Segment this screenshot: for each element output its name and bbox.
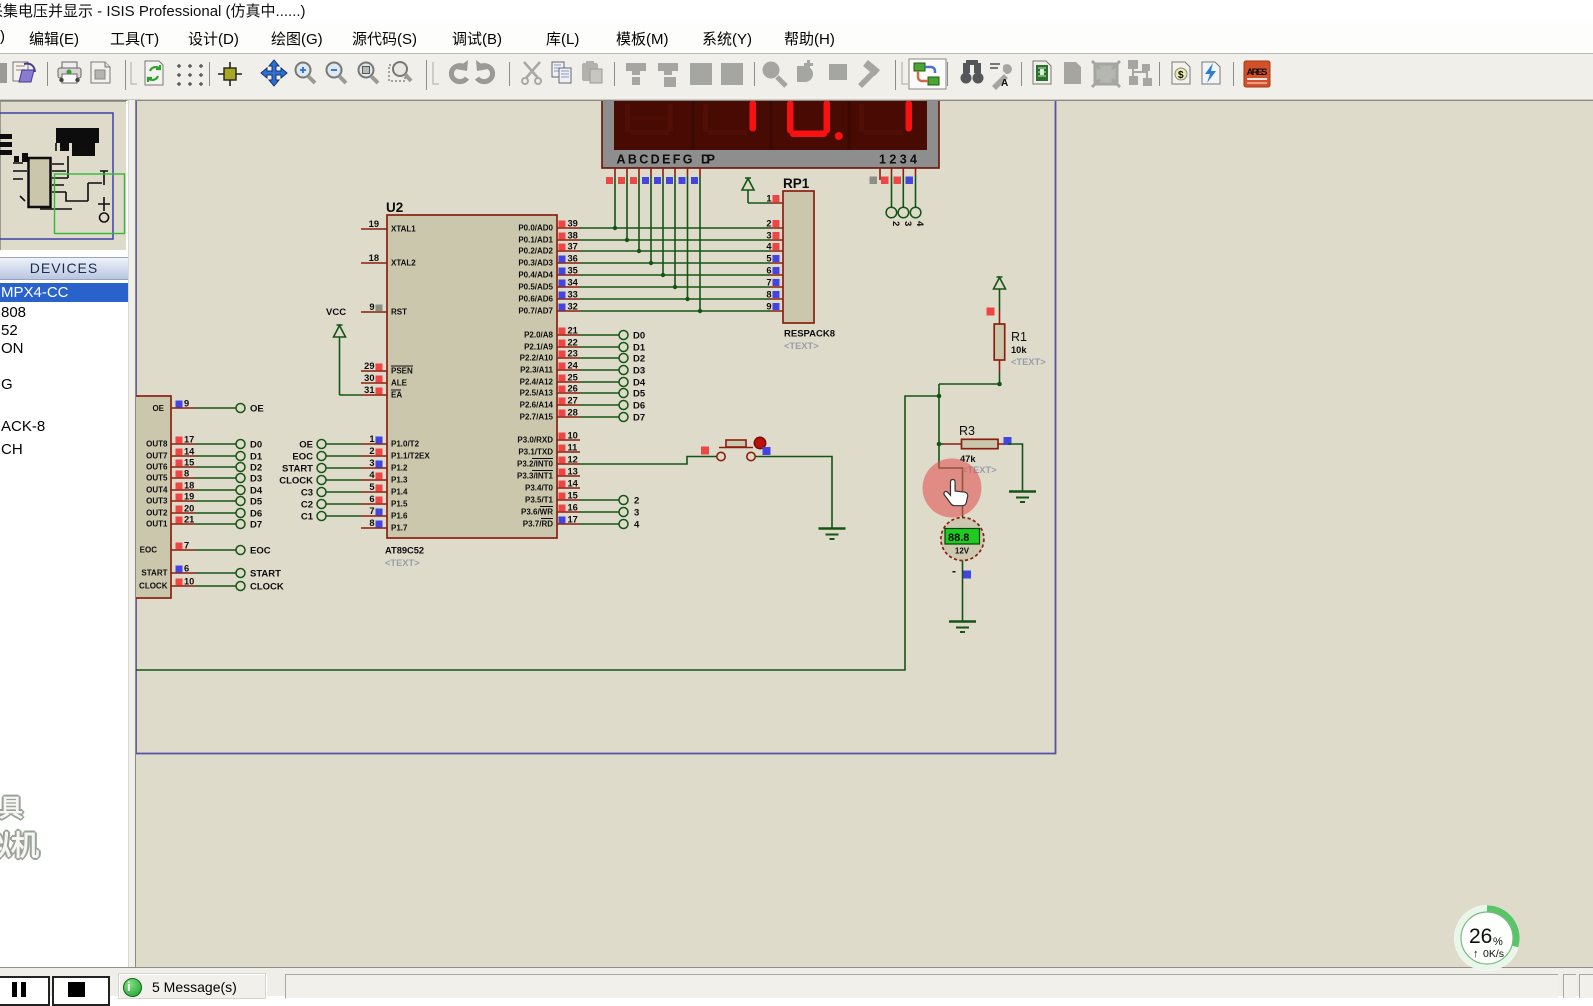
wires ADC0808 to terminals (195, 408, 236, 586)
svg-text:D0: D0 (633, 331, 645, 342)
svg-text:OE: OE (152, 404, 164, 413)
svg-text:8: 8 (369, 518, 374, 528)
svg-text:26: 26 (568, 384, 578, 394)
7-seg digit2 lit segment "1" (750, 101, 757, 132)
ADC0808 pin names (139, 404, 168, 591)
svg-text:P1.5: P1.5 (391, 500, 408, 509)
svg-text:<TEXT>: <TEXT> (385, 558, 420, 568)
wire P0.3 to RP1 pin5 (580, 262, 770, 264)
7-segment display U1 frame (602, 86, 939, 168)
svg-text:P2.5/A13: P2.5/A13 (520, 389, 554, 398)
U2 right pin stubs P0 (557, 228, 580, 311)
svg-text:4: 4 (766, 242, 772, 252)
svg-text:DP: DP (701, 153, 715, 167)
svg-text:P0.3/AD3: P0.3/AD3 (518, 259, 553, 268)
svg-text:D3: D3 (633, 366, 645, 377)
zoom out icon (327, 63, 342, 78)
resistor R1 (994, 310, 1005, 372)
resistor R3 (939, 439, 1008, 448)
svg-text:15: 15 (568, 491, 578, 501)
display digit pins 1-4 (880, 168, 916, 180)
zoom in icon (296, 63, 311, 78)
svg-text:OUT6: OUT6 (146, 463, 168, 472)
svg-text:VCC: VCC (326, 307, 346, 318)
wire P0.4 to RP1 pin6 (580, 274, 770, 276)
bottom bar (0, 967, 1593, 996)
svg-text:12V: 12V (955, 547, 970, 556)
svg-text:P1.6: P1.6 (391, 512, 408, 521)
net labels middle column (279, 440, 313, 523)
battery V1 (DC source) (941, 518, 984, 561)
property assignment (A wrench) (990, 64, 1000, 68)
svg-text:D4: D4 (250, 486, 263, 497)
svg-text:2: 2 (369, 446, 374, 456)
svg-text:32: 32 (568, 302, 578, 312)
svg-text:ALE: ALE (391, 379, 408, 388)
resistor pack RP1 (770, 176, 814, 323)
wire P0.0 to RP1 pin2 (580, 227, 770, 229)
junction dots segment taps (613, 226, 702, 313)
svg-text:D4: D4 (633, 378, 646, 389)
svg-text:2: 2 (634, 496, 639, 507)
svg-text:3: 3 (766, 231, 771, 241)
paste grayed (582, 63, 598, 81)
svg-text:ARES: ARES (1247, 67, 1268, 78)
svg-text:OUT2: OUT2 (146, 509, 168, 518)
mark/doc icon (91, 62, 110, 83)
svg-text:P0.4/AD4: P0.4/AD4 (518, 271, 553, 280)
zoom extent icon (389, 65, 405, 81)
grid icon (177, 64, 203, 68)
svg-text:R3: R3 (959, 424, 975, 438)
svg-text:%: % (1493, 936, 1503, 948)
svg-text:D3: D3 (250, 474, 262, 485)
svg-text:6: 6 (369, 494, 374, 504)
menu bar (0, 20, 1593, 54)
U2 P2 pin names (520, 331, 554, 422)
toolbar (0, 54, 1593, 100)
wire junction down to R3/battery (939, 384, 963, 517)
svg-text:18: 18 (369, 253, 379, 263)
display pin state squares (A,B,C red; D-DP blue) (606, 177, 698, 184)
svg-text:9: 9 (184, 399, 189, 409)
svg-text:6: 6 (766, 266, 771, 276)
svg-text:3: 3 (369, 458, 374, 468)
svg-text:D1: D1 (633, 343, 646, 354)
svg-text:23: 23 (568, 349, 578, 359)
svg-text:XTAL2: XTAL2 (391, 259, 416, 268)
svg-text:OUT3: OUT3 (146, 497, 168, 506)
U2 P0 pin names (518, 224, 553, 316)
svg-text:27: 27 (568, 396, 578, 406)
RP1 pin state squares (773, 195, 780, 310)
middle terminal circles to U2 P1 (317, 440, 326, 521)
svg-text:D6: D6 (633, 401, 645, 412)
ground symbol right of R3 (1009, 492, 1036, 503)
svg-text:D5: D5 (633, 389, 646, 400)
power terminal VCC at RP1 pin1 (742, 178, 754, 203)
svg-text:5: 5 (369, 482, 374, 492)
svg-text:24: 24 (568, 361, 579, 371)
svg-text:P2.3/A11: P2.3/A11 (520, 366, 553, 375)
ADC0808 pin stubs (171, 408, 195, 586)
svg-text:13: 13 (568, 467, 578, 477)
svg-text:11: 11 (568, 443, 578, 453)
7-seg unlit segments digit4 (859, 104, 903, 135)
wire P3.2 to button (580, 457, 717, 465)
svg-text:33: 33 (568, 290, 578, 300)
svg-text:$: $ (1178, 70, 1184, 81)
svg-text:U2: U2 (386, 200, 403, 215)
svg-text:37: 37 (568, 242, 578, 252)
svg-text:RST: RST (391, 308, 407, 317)
svg-text:1: 1 (766, 194, 771, 204)
7-seg digit3 lit segments "U." (787, 101, 843, 141)
title bar (0, 0, 1593, 20)
svg-text:35: 35 (568, 266, 578, 276)
ground symbol under button (819, 529, 846, 540)
svg-text:P3.4/T0: P3.4/T0 (525, 484, 554, 493)
svg-text:PSEN: PSEN (391, 367, 413, 376)
svg-text:14: 14 (184, 447, 195, 457)
terminal circles display pins 2,3,4 (886, 176, 921, 218)
svg-text:P3.0/RXD: P3.0/RXD (517, 436, 553, 445)
wire P0.7 to RP1 pin9 (580, 310, 770, 312)
svg-text:P0.2/AD2: P0.2/AD2 (518, 247, 553, 256)
svg-text:RP1: RP1 (783, 176, 810, 191)
svg-text:P1.0/T2: P1.0/T2 (391, 440, 420, 449)
svg-text:D6: D6 (250, 509, 262, 520)
block copy (626, 63, 646, 75)
svg-text:D5: D5 (250, 497, 263, 508)
wire segment E vertical (662, 176, 664, 275)
svg-text:P2.0/A8: P2.0/A8 (524, 331, 553, 340)
svg-text:C3: C3 (301, 488, 313, 499)
svg-text:9: 9 (766, 302, 771, 312)
7-seg digit4 lit segment "1" (906, 101, 913, 132)
7-seg unlit segments digit2 (703, 104, 747, 135)
origin icon (218, 62, 242, 86)
pick gate ic hammer group (763, 62, 780, 79)
svg-text:25: 25 (568, 373, 578, 383)
svg-text:P0.7/AD7: P0.7/AD7 (518, 307, 553, 316)
canvas + schematic (135, 100, 1593, 968)
svg-text:9: 9 (369, 302, 374, 312)
binoculars (961, 73, 972, 84)
svg-text:P2.7/A15: P2.7/A15 (520, 413, 554, 422)
junction dot at R3 tap (937, 442, 942, 447)
svg-text:88.8: 88.8 (948, 532, 969, 544)
design explorer doc (1033, 61, 1051, 84)
electra doc (1202, 62, 1220, 84)
svg-text:↑: ↑ (1473, 948, 1479, 960)
refresh doc icon (145, 61, 163, 85)
terminal circles P2 column (619, 331, 628, 422)
U2 P3 pin numbers 10-17 (568, 431, 579, 525)
ARES icon (1244, 61, 1270, 87)
wires middle terminals to U2 P1 pins (326, 444, 361, 516)
svg-text:OE: OE (299, 440, 313, 451)
svg-text:P0.5/AD5: P0.5/AD5 (518, 283, 553, 292)
U2 left pin state squares (376, 305, 383, 528)
svg-text:6: 6 (184, 564, 189, 574)
terminal circles ADC column (236, 404, 245, 591)
svg-text:31: 31 (364, 385, 374, 395)
svg-text:D2: D2 (633, 354, 645, 365)
wire segment G vertical (687, 176, 689, 299)
junction dot at x939 y396 (937, 394, 942, 399)
svg-text:39: 39 (568, 219, 578, 229)
svg-text:-: - (952, 564, 956, 578)
svg-text:D7: D7 (250, 520, 262, 531)
wire segment B vertical (626, 176, 628, 240)
svg-text:17: 17 (568, 515, 578, 525)
svg-text:17: 17 (184, 435, 194, 445)
wire VCC to RP1 pin1 (748, 202, 770, 204)
svg-text:34: 34 (568, 278, 579, 288)
svg-text:10k: 10k (1011, 345, 1027, 355)
wire P0.6 to RP1 pin8 (580, 298, 770, 300)
wire button to ground (756, 457, 833, 529)
wire segment A vertical (614, 176, 616, 228)
power terminal VCC at U2 EA (326, 307, 346, 395)
wire segment C vertical (638, 176, 640, 251)
display digit pin state squares (gray,red,red,blue) (870, 177, 914, 185)
cut copy paste (524, 62, 540, 78)
svg-text:3: 3 (634, 508, 639, 519)
svg-text:D2: D2 (250, 463, 262, 474)
wires U2 P2 to terminals D0-D7 (580, 335, 619, 417)
svg-text:OUT5: OUT5 (146, 474, 168, 483)
svg-text:P3.3/INT1: P3.3/INT1 (517, 472, 554, 481)
svg-text:<TEXT>: <TEXT> (784, 341, 819, 351)
svg-text:2: 2 (766, 219, 771, 229)
svg-text:15: 15 (184, 458, 194, 468)
U2 P0 pin numbers 39-32 (568, 219, 579, 312)
svg-text:22: 22 (568, 338, 578, 348)
rotated net labels 2 3 4 (890, 221, 925, 227)
svg-text:D1: D1 (250, 452, 263, 463)
svg-text:P3.7/RD: P3.7/RD (523, 520, 553, 529)
svg-text:18: 18 (184, 481, 194, 491)
svg-text:P3.1/TXD: P3.1/TXD (518, 448, 553, 457)
ADC0808 pin numbers (184, 399, 195, 587)
sheet border (136, 100, 1056, 754)
svg-text:START: START (282, 464, 313, 475)
net labels 2 3 4 (634, 496, 640, 531)
autorouter pressed (909, 59, 946, 89)
junction dot at R1 bottom (997, 382, 1002, 387)
svg-text:36: 36 (568, 254, 578, 264)
svg-text:P0.6/AD6: P0.6/AD6 (518, 295, 553, 304)
svg-text:START: START (250, 569, 281, 580)
svg-text:4: 4 (369, 470, 375, 480)
wire segment F vertical (674, 176, 676, 287)
ADC0808 U3 body (clipped at canvas edge) (112, 396, 171, 598)
svg-text:OUT7: OUT7 (146, 452, 168, 461)
wire P0.2 to RP1 pin4 (580, 250, 770, 252)
svg-text:CLOCK: CLOCK (139, 582, 168, 591)
svg-text:P2.1/A9: P2.1/A9 (524, 343, 553, 352)
copy icon (552, 62, 564, 77)
svg-text:R1: R1 (1011, 330, 1027, 344)
svg-text:START: START (141, 569, 167, 578)
svg-text:P1.2: P1.2 (391, 464, 408, 473)
wire P0.5 to RP1 pin7 (580, 286, 770, 288)
svg-text:14: 14 (568, 479, 579, 489)
U2 left pin names (391, 225, 430, 533)
R1 state square (987, 308, 995, 316)
ADC0808 pin state squares (176, 401, 183, 586)
svg-text:P0.1/AD1: P0.1/AD1 (518, 236, 553, 245)
svg-text:20: 20 (184, 504, 194, 514)
new/open sheets icon (13, 62, 28, 81)
svg-text:CLOCK: CLOCK (279, 476, 313, 487)
svg-text:P1.7: P1.7 (391, 524, 408, 533)
svg-text:C2: C2 (301, 500, 313, 511)
battery state square (963, 571, 971, 579)
svg-text:28: 28 (568, 408, 578, 418)
wire VCC to EA pin (340, 394, 362, 396)
power terminal VCC at R1 (994, 277, 1006, 310)
terminal circles P3 column (619, 496, 628, 529)
wire battery to ground (962, 561, 964, 622)
svg-text:P2.6/A14: P2.6/A14 (520, 401, 554, 410)
zoom area icon (359, 63, 374, 78)
svg-text:8: 8 (184, 469, 189, 479)
svg-text:3: 3 (902, 221, 913, 226)
svg-text:10: 10 (184, 577, 194, 587)
svg-text:D0: D0 (250, 440, 262, 451)
RP1 pin numbers 1-9 (766, 194, 772, 312)
wire R1 bottom to junction (939, 372, 1000, 384)
svg-text:AT89C52: AT89C52 (385, 546, 424, 556)
svg-text:7: 7 (184, 541, 189, 551)
svg-text:10: 10 (568, 431, 578, 441)
undo redo (451, 66, 467, 82)
left panel (0, 100, 128, 967)
svg-text:RESPACK8: RESPACK8 (784, 329, 835, 340)
svg-text:2: 2 (890, 221, 901, 226)
svg-text:4: 4 (634, 520, 640, 531)
svg-text:OUT4: OUT4 (146, 486, 168, 495)
display segment pins A-G,DP (615, 168, 700, 176)
svg-text:EOC: EOC (140, 546, 158, 555)
svg-text:P1.3: P1.3 (391, 476, 408, 485)
U2 left pin stubs (361, 229, 387, 528)
svg-text:0K/s: 0K/s (1483, 948, 1504, 960)
new sheet / remove sheet / goto docs (1064, 62, 1081, 84)
wire R3 right to ground (1008, 444, 1023, 491)
svg-text:21: 21 (184, 515, 194, 525)
svg-text:A: A (1001, 78, 1008, 89)
svg-text:EOC: EOC (250, 546, 271, 557)
hand cursor (944, 479, 968, 505)
U2 P3 pin names (517, 436, 554, 529)
bom $ doc (1172, 62, 1190, 84)
svg-text:4: 4 (914, 221, 925, 227)
svg-text:26: 26 (1469, 925, 1492, 948)
U2 left pin numbers (364, 219, 379, 528)
microcontroller U2 AT89C52 body (385, 200, 557, 568)
svg-text:12: 12 (568, 455, 578, 465)
cursor highlight circle (923, 459, 982, 518)
svg-text:P1.4: P1.4 (391, 488, 408, 497)
svg-text:P0.0/AD0: P0.0/AD0 (518, 224, 553, 233)
svg-text:7: 7 (369, 506, 374, 516)
wire segment D vertical (650, 176, 652, 263)
svg-text:EOC: EOC (292, 452, 313, 463)
R3 state square blue (1004, 437, 1012, 445)
progress circle overlay (1452, 903, 1522, 973)
svg-text:21: 21 (568, 326, 578, 336)
svg-text:38: 38 (568, 231, 578, 241)
svg-text:P3.2/INT0: P3.2/INT0 (517, 460, 554, 469)
svg-text:P2.4/A12: P2.4/A12 (520, 378, 554, 387)
ground symbol under battery (949, 622, 976, 633)
U2 right pin state squares (559, 221, 566, 524)
svg-text:OUT1: OUT1 (146, 520, 168, 529)
wire P0.1 to RP1 pin3 (580, 239, 770, 241)
printer icon (58, 68, 81, 78)
net labels D0-D7 at P2 (633, 331, 646, 424)
svg-text:OUT8: OUT8 (146, 440, 168, 449)
svg-text:XTAL1: XTAL1 (391, 225, 416, 234)
pan cross icon (261, 60, 287, 86)
U2 P2 pin numbers 21-28 (568, 326, 579, 418)
svg-text:P3.5/T1: P3.5/T1 (525, 496, 554, 505)
svg-text:19: 19 (184, 492, 194, 502)
push button (701, 437, 771, 460)
wires U2 P3.5-P3.7 to terminals (580, 500, 619, 524)
svg-text:C1: C1 (301, 512, 314, 523)
svg-text:D7: D7 (633, 413, 645, 424)
svg-text:29: 29 (364, 361, 374, 371)
svg-text:19: 19 (369, 219, 379, 229)
svg-text:1: 1 (369, 434, 374, 444)
svg-text:8: 8 (766, 290, 771, 300)
U2 right pin stubs P3 (557, 440, 580, 524)
svg-text:CLOCK: CLOCK (250, 582, 284, 593)
net labels ADC column (250, 404, 284, 593)
svg-text:<TEXT>: <TEXT> (1011, 357, 1046, 367)
svg-text:16: 16 (568, 503, 578, 513)
U2 right pin stubs P2 (557, 335, 580, 417)
7-seg unlit segments digit1 (625, 104, 673, 135)
svg-text:P1.1/T2EX: P1.1/T2EX (391, 452, 430, 461)
svg-text:5: 5 (766, 254, 771, 264)
svg-text:30: 30 (364, 373, 374, 383)
svg-text:P3.6/WR: P3.6/WR (521, 508, 553, 517)
svg-text:7: 7 (766, 278, 771, 288)
wire to long bottom net (136, 396, 939, 670)
svg-text:OE: OE (250, 404, 264, 415)
svg-text:P2.2/A10: P2.2/A10 (520, 354, 554, 363)
svg-text:EA: EA (391, 391, 402, 400)
wire segment DP vertical (699, 176, 701, 311)
